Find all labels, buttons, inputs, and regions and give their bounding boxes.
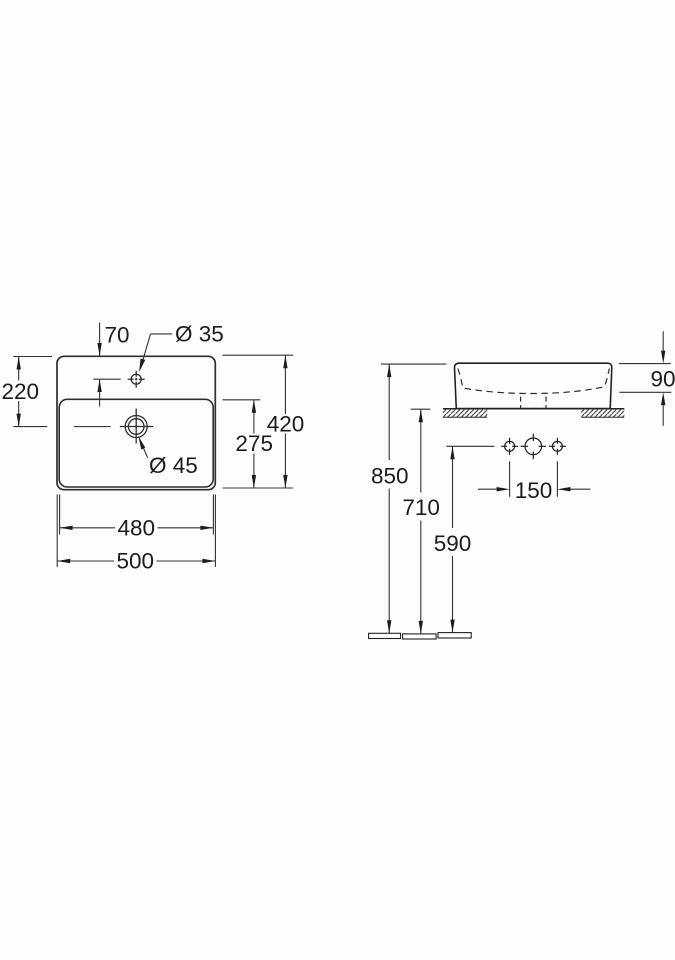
countertop line — [443, 408, 624, 410]
dimension 90 — [619, 331, 671, 426]
svg-text:220: 220 — [2, 379, 40, 404]
drain hole Ø45 — [120, 409, 153, 444]
mounting hole center (large) — [521, 434, 546, 460]
washbasin profile — [454, 363, 611, 408]
svg-text:275: 275 — [235, 431, 273, 456]
top reference line (left of profile) — [381, 363, 446, 365]
drain outline (dashed) — [521, 397, 546, 408]
dimension 500 — [57, 495, 215, 568]
floor symbol bars — [369, 633, 472, 639]
washbasin outer outline — [57, 356, 215, 489]
counter reference tick (710) — [411, 408, 431, 410]
dimension 590 — [452, 446, 454, 632]
leader and label Ø45 — [143, 447, 148, 458]
basin inner rim (dashed) — [458, 369, 609, 394]
dimension 420 — [223, 355, 294, 488]
drain centerline segment — [74, 426, 111, 428]
faucet hole Ø35 — [128, 371, 145, 388]
svg-text:710: 710 — [402, 495, 440, 520]
hole-row reference line (590) — [446, 445, 494, 447]
dimension 220 — [13, 357, 52, 427]
countertop hatched section right — [581, 409, 624, 417]
svg-text:500: 500 — [117, 549, 155, 574]
svg-text:150: 150 — [515, 478, 553, 503]
mounting hole left (small) — [501, 438, 518, 455]
svg-text:90: 90 — [651, 367, 675, 392]
svg-text:70: 70 — [105, 323, 130, 348]
dimension 275 — [223, 400, 261, 488]
svg-text:590: 590 — [434, 531, 472, 556]
washbasin inner basin rim — [59, 399, 213, 487]
countertop hatched section left — [443, 409, 488, 417]
dimension 150 — [478, 461, 591, 497]
dimension 710 — [420, 409, 422, 634]
svg-text:850: 850 — [371, 463, 409, 488]
dimension 480 — [60, 495, 214, 535]
dimension 70 — [93, 323, 120, 407]
dimension 850 — [388, 364, 390, 633]
svg-text:Ø 45: Ø 45 — [149, 453, 198, 478]
mounting hole right (small) — [549, 438, 566, 455]
svg-text:480: 480 — [118, 516, 156, 541]
svg-text:Ø 35: Ø 35 — [175, 322, 224, 347]
leader and label Ø35 — [143, 334, 172, 360]
